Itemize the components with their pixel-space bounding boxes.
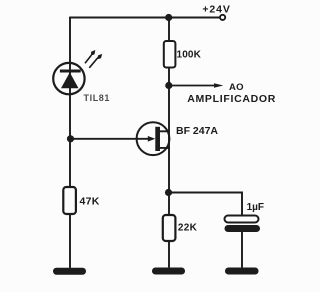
wire gate lead bbox=[70, 138, 149, 140]
svg-text:BF 247A: BF 247A bbox=[176, 125, 218, 137]
capacitor C1 1uF electrolytic bbox=[225, 216, 261, 233]
resistor R 22K bbox=[163, 215, 176, 241]
resistor R 100K bbox=[164, 41, 176, 68]
transistor Q1 BF247A (JFET) bbox=[137, 122, 170, 155]
node junction output (drain / AO) bbox=[165, 82, 172, 89]
node junction top (+24V / 100K) bbox=[165, 14, 172, 21]
wire right vertical rail bbox=[168, 18, 170, 268]
ground middle bbox=[152, 268, 185, 275]
transistor source stub bbox=[160, 147, 169, 149]
light arrow 2 bbox=[89, 54, 102, 68]
svg-text:1µF: 1µF bbox=[247, 202, 264, 213]
terminal +24V open circle bbox=[220, 15, 225, 20]
svg-text:47K: 47K bbox=[80, 196, 100, 208]
node junction gate (photodiode / 47K / gate) bbox=[67, 135, 74, 142]
node junction source (22K / capacitor) bbox=[165, 189, 172, 196]
light arrow 1 bbox=[85, 50, 95, 63]
svg-text:AMPLIFICADOR: AMPLIFICADOR bbox=[187, 93, 276, 105]
svg-text:22K: 22K bbox=[178, 223, 198, 234]
wire top horizontal (+24V rail) bbox=[70, 17, 220, 19]
photodiode D1 TIL81 bbox=[53, 63, 84, 94]
transistor drain stub bbox=[160, 130, 169, 132]
wire left vertical rail bbox=[69, 18, 71, 268]
ground left bbox=[53, 268, 86, 275]
svg-text:TIL81: TIL81 bbox=[84, 93, 111, 103]
resistor R 47K bbox=[63, 187, 76, 214]
svg-text:+24V: +24V bbox=[202, 4, 230, 16]
svg-text:AO: AO bbox=[229, 82, 244, 93]
arrow output to amplifier bbox=[169, 83, 223, 88]
ground right bbox=[225, 268, 259, 275]
svg-text:100K: 100K bbox=[177, 50, 202, 61]
wire source to capacitor branch bbox=[169, 193, 242, 217]
wire capacitor to ground bbox=[241, 232, 243, 268]
